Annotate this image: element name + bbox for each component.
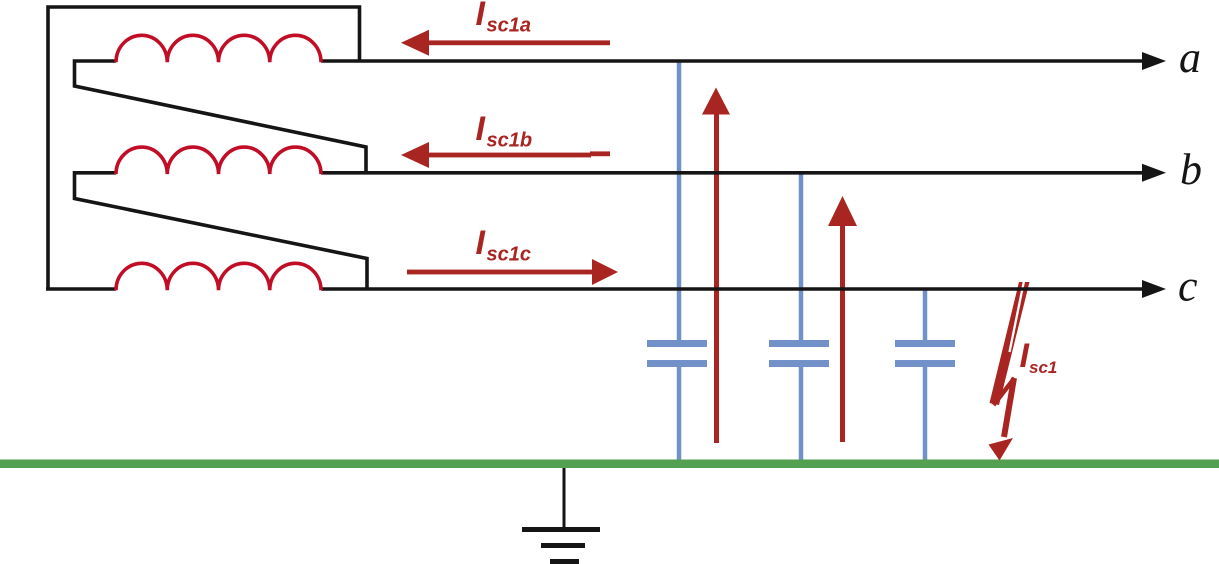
ground symbol bar 3 <box>550 559 579 564</box>
ground symbol stem <box>563 468 566 527</box>
ground symbol bar 1 <box>522 527 600 532</box>
fault bolt Isc1: arrowhead to ground <box>989 438 1014 461</box>
current arrow Isc1c (rightward) <box>407 259 618 285</box>
capacitor Cc plates <box>895 340 955 367</box>
fault bolt Isc1: upper tapered stroke (under line c) <box>990 281 1030 405</box>
fault bolt Isc1: zig stroke <box>994 378 1015 405</box>
arrowhead line a <box>1142 52 1166 70</box>
phase line c (wire) <box>321 287 1143 291</box>
svg-text:c: c <box>1178 262 1198 311</box>
arrowhead line c <box>1142 280 1166 298</box>
svg-text:sc1c: sc1c <box>487 244 532 266</box>
node label c <box>1178 262 1198 311</box>
svg-text:sc1b: sc1b <box>487 130 533 152</box>
capacitive current arrow 1 (upward, phase a) <box>702 88 730 444</box>
svg-text:sc1a: sc1a <box>487 15 532 37</box>
coil winding a <box>116 35 321 62</box>
capacitor Cb lead to ground <box>799 367 804 460</box>
capacitor Ca plates <box>647 340 707 367</box>
coil winding c <box>116 263 321 290</box>
capacitor Cb plates <box>769 340 829 367</box>
capacitor branch Cc: lead from line c <box>923 290 928 340</box>
label Isc1c <box>476 224 532 266</box>
fault bolt Isc1: lower shaft <box>1004 378 1014 437</box>
winding interconnect a-b (step + diagonal) <box>75 61 367 173</box>
capacitor branch Cb: lead from line b <box>799 173 804 340</box>
node label b <box>1180 145 1202 194</box>
bottom lead of winding c <box>46 287 116 291</box>
current arrow Isc1a (leftward) <box>401 30 610 56</box>
node label a <box>1179 33 1201 82</box>
capacitor Cc lead to ground <box>923 367 928 460</box>
phase line a (wire) <box>321 59 1143 63</box>
coil winding b <box>116 147 321 174</box>
winding interconnect b-c (step + diagonal) <box>75 173 368 289</box>
capacitor branch Ca: lead from line a <box>677 62 682 340</box>
svg-text:sc1: sc1 <box>1029 358 1057 377</box>
svg-text:a: a <box>1179 33 1201 82</box>
ground symbol bar 2 <box>541 543 585 548</box>
svg-text:I: I <box>476 110 487 148</box>
svg-text:I: I <box>476 0 487 33</box>
svg-text:b: b <box>1180 145 1202 194</box>
label Isc1b <box>476 110 533 152</box>
green ground plane (earth bus) <box>0 460 1219 469</box>
label Isc1 <box>1020 337 1058 377</box>
arrowhead line b <box>1142 164 1166 182</box>
delta winding outline (transformer frame) <box>48 7 360 289</box>
phase line b (wire) <box>321 171 1143 175</box>
label Isc1a <box>476 0 532 37</box>
capacitive current arrow 2 (upward, phase b) <box>828 196 857 442</box>
svg-text:I: I <box>476 224 487 262</box>
current arrow Isc1b (leftward) <box>401 142 610 168</box>
capacitor Ca lead to ground <box>677 367 682 460</box>
